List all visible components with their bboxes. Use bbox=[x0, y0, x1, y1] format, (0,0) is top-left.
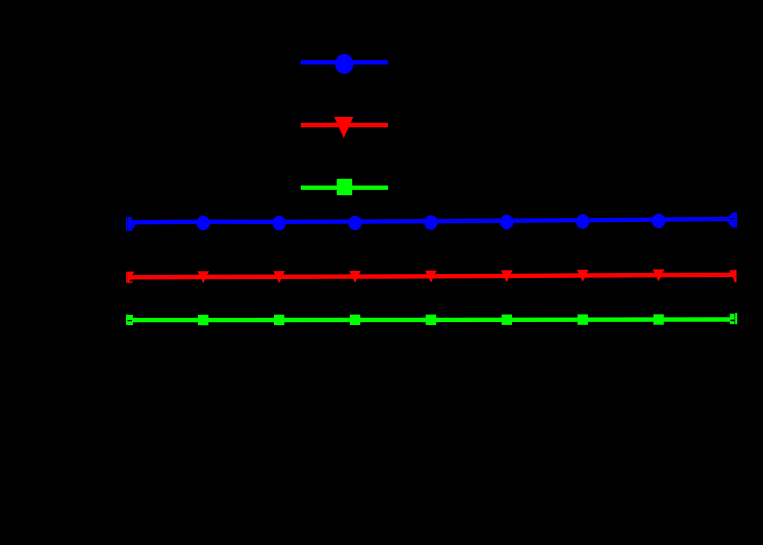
green right error bar bbox=[735, 313, 737, 324]
red series marker 4 bbox=[349, 271, 361, 283]
green series marker 2 bbox=[198, 315, 208, 325]
blue series marker 3 bbox=[272, 216, 285, 231]
blue left error bar with caps bbox=[126, 217, 133, 231]
green series marker 5 bbox=[426, 315, 436, 325]
green series marker 3 bbox=[274, 315, 284, 325]
legend blue sample line bbox=[301, 60, 388, 64]
blue series marker 4 bbox=[348, 216, 361, 231]
red right error bar bbox=[734, 270, 736, 282]
red left error bar with caps bbox=[126, 272, 133, 283]
green series data line bbox=[128, 317, 735, 322]
blue right error bar with caps bbox=[732, 213, 737, 228]
red series data line bbox=[128, 275, 735, 278]
green first point marker (clipped half square) bbox=[128, 315, 133, 325]
red series marker 7 bbox=[577, 270, 589, 282]
blue last point marker (half circle) bbox=[728, 213, 735, 228]
legend green square marker bbox=[337, 179, 352, 195]
red last point marker (half triangle) bbox=[729, 270, 735, 282]
black notch green left bbox=[128, 320, 132, 321]
red first point marker (clipped half triangle) bbox=[123, 272, 135, 284]
legend green sample line bbox=[301, 185, 388, 189]
green series marker 6 bbox=[502, 315, 512, 325]
red series marker 3 bbox=[273, 271, 285, 283]
blue series marker 6 bbox=[500, 215, 513, 230]
green series marker 8 bbox=[653, 314, 663, 324]
blue first point marker (clipped half circle) bbox=[122, 218, 135, 229]
blue series data line bbox=[128, 219, 735, 222]
blue series marker 8 bbox=[652, 214, 665, 229]
green left error bar bbox=[126, 314, 127, 325]
green series marker 7 bbox=[578, 314, 588, 324]
legend red sample line bbox=[301, 123, 388, 127]
blue series marker 2 bbox=[197, 216, 210, 231]
blue series marker 7 bbox=[576, 214, 589, 229]
red series marker 5 bbox=[425, 271, 437, 283]
red series marker 8 bbox=[653, 269, 665, 281]
black notch green right bbox=[730, 320, 734, 321]
green last point marker (half square) bbox=[730, 314, 735, 324]
blue series marker 5 bbox=[424, 215, 437, 230]
red series marker 2 bbox=[197, 271, 209, 283]
legend blue circle marker bbox=[335, 54, 353, 74]
black notch blue right bbox=[729, 218, 734, 219]
green series marker 4 bbox=[350, 315, 360, 325]
legend red triangle marker bbox=[334, 117, 353, 138]
red series marker 6 bbox=[501, 270, 513, 282]
